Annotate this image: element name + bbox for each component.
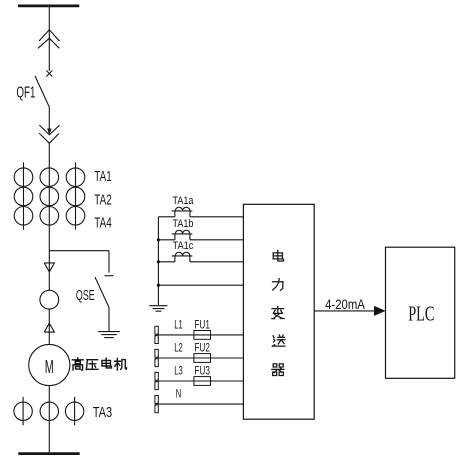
svg-text:L1: L1 [174, 318, 183, 332]
svg-text:TA3: TA3 [93, 404, 112, 421]
svg-text:TA1: TA1 [94, 168, 111, 185]
svg-text:TA2: TA2 [94, 191, 111, 208]
svg-text:N: N [176, 387, 182, 401]
svg-text:TA1a: TA1a [173, 195, 194, 207]
svg-text:PLC: PLC [408, 302, 434, 326]
svg-text:FU2: FU2 [194, 341, 210, 355]
svg-text:M: M [45, 356, 54, 377]
svg-text:QF1: QF1 [16, 85, 35, 102]
svg-text:4-20mA: 4-20mA [325, 296, 365, 312]
svg-text:QSE: QSE [76, 287, 95, 304]
svg-text:L2: L2 [174, 341, 183, 355]
svg-text:TA4: TA4 [94, 215, 111, 232]
svg-text:L3: L3 [174, 364, 183, 378]
svg-text:TA1b: TA1b [173, 218, 194, 230]
svg-text:FU1: FU1 [194, 318, 210, 332]
svg-text:TA1c: TA1c [173, 240, 194, 252]
svg-text:FU3: FU3 [194, 364, 210, 378]
